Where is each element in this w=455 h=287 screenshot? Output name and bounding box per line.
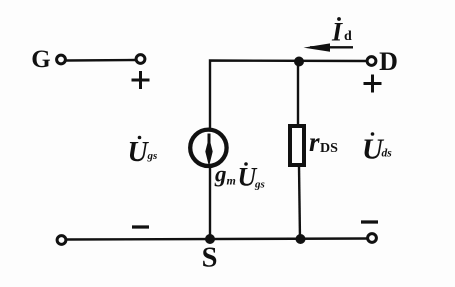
svg-text:G: G xyxy=(31,46,50,73)
wire rds bottom lead xyxy=(299,166,300,240)
current arrow Id xyxy=(304,43,354,51)
label I_d xyxy=(331,17,352,46)
wire gate lead xyxy=(67,59,136,62)
terminal D node circle xyxy=(367,57,376,66)
label U_ds xyxy=(362,132,392,165)
label U_gs xyxy=(128,136,158,168)
wire bottom rail xyxy=(67,239,368,240)
svg-text:d: d xyxy=(344,29,352,44)
svg-text:U: U xyxy=(128,137,150,168)
terminal source-right node circle xyxy=(368,234,377,243)
label rDS xyxy=(309,127,338,157)
svg-text:ds: ds xyxy=(382,148,393,160)
resistor rDS xyxy=(290,126,304,165)
svg-text:m: m xyxy=(227,174,236,188)
terminal D label xyxy=(379,47,398,76)
label + (drain side) xyxy=(364,75,382,93)
node junction top (drain branch) xyxy=(294,57,304,67)
svg-text:gs: gs xyxy=(254,179,265,191)
svg-text:D: D xyxy=(379,47,398,76)
label - (left) xyxy=(132,225,149,228)
terminal source-left node circle xyxy=(57,236,66,245)
node S junction xyxy=(205,234,215,244)
node junction bottom (drain branch) xyxy=(296,234,306,244)
label + (gate side) xyxy=(132,71,150,89)
wire top from current source corner to D xyxy=(210,61,367,130)
terminal G label xyxy=(31,46,50,73)
svg-text:g: g xyxy=(214,162,227,187)
label - (right) xyxy=(361,220,378,223)
svg-text:I: I xyxy=(331,18,343,47)
label gm*Ugs xyxy=(214,162,265,192)
svg-text:S: S xyxy=(202,243,218,274)
wire current source to bottom rail xyxy=(209,167,211,240)
svg-text:DS: DS xyxy=(320,141,338,156)
node gate plus terminal circle xyxy=(136,55,145,64)
wire rds top lead xyxy=(297,62,299,126)
label S xyxy=(202,243,218,274)
terminal G node circle xyxy=(57,55,66,64)
svg-text:r: r xyxy=(309,127,320,157)
svg-text:gs: gs xyxy=(147,150,158,162)
current source U (gm*Ugs) xyxy=(190,130,226,167)
